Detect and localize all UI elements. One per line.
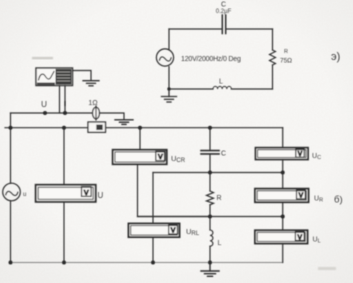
wire source bottom stub — [168, 67, 170, 89]
wire bottom rail — [11, 262, 283, 264]
AC source (big circuit) — [3, 183, 21, 201]
wire top-right segment of small circuit — [227, 28, 273, 30]
wire node D horizontal line — [138, 216, 283, 218]
junction series chain / top rail — [208, 126, 212, 130]
capacitor C (chain) — [201, 151, 219, 154]
wire scope channel A down — [59, 86, 61, 114]
svg-text:U: U — [41, 100, 47, 109]
svg-text:1Ω: 1Ω — [88, 100, 97, 107]
wire voltmeter U top lead — [63, 128, 65, 185]
svg-text:R: R — [284, 49, 288, 55]
voltmeter UR — [255, 189, 309, 203]
ground (small circuit) — [162, 89, 177, 102]
junction node B chain — [208, 171, 212, 175]
capacitor C (series, small circuit) — [222, 15, 225, 34]
voltmeter UL — [255, 230, 308, 243]
wire right column UR to UL — [282, 202, 284, 230]
wire source to bottom rail — [10, 201, 12, 263]
scan smudge artifact bottom right — [318, 267, 336, 270]
voltmeter U — [36, 185, 96, 202]
svg-text:б): б) — [334, 195, 343, 206]
fuse 1 ohm — [93, 106, 100, 120]
ground (upper line) — [115, 120, 133, 125]
junction node D right column — [281, 215, 285, 219]
wire right column UL to bottom rail — [282, 244, 284, 263]
wire node B horizontal line — [153, 172, 283, 174]
svg-text:C: C — [221, 2, 226, 9]
ground (bottom rail) — [201, 263, 219, 277]
svg-text:R: R — [217, 195, 222, 202]
svg-text:U: U — [98, 191, 104, 200]
svg-text:0.2µF: 0.2µF — [216, 9, 232, 15]
svg-text:L: L — [219, 79, 223, 86]
wire main top rail — [5, 127, 283, 129]
svg-text:V: V — [171, 226, 176, 235]
resistor R (chain) — [207, 191, 214, 205]
junction voltmeter U branch / top rail — [62, 126, 66, 130]
svg-text:u: u — [23, 192, 26, 198]
junction chain / bottom rail — [208, 261, 212, 265]
voltmeter UC — [256, 148, 309, 160]
wire voltmeter UCR top lead — [139, 128, 141, 150]
oscilloscope XSC1 icon — [36, 68, 73, 86]
wire top-left segment of small circuit — [169, 28, 221, 30]
wire oscilloscope to ground — [73, 71, 92, 81]
wire scope channel B down — [64, 86, 66, 114]
inductor L (chain) — [210, 230, 213, 246]
AC source V1 (small circuit) — [156, 49, 173, 66]
junction voltmeter U / bottom rail — [62, 261, 66, 265]
wire bottom-right segment of small circuit — [231, 88, 272, 90]
wire voltmeter U bottom lead — [63, 202, 65, 263]
wire upper measurement line — [11, 112, 93, 114]
junction node D chain — [208, 215, 212, 219]
svg-text:UR: UR — [314, 196, 323, 204]
node I on upper line — [63, 111, 67, 115]
wire chain C to R — [209, 154, 211, 191]
junction voltmeter UCR branch / top rail — [138, 126, 142, 130]
scan smudge artifact above oscilloscope — [32, 57, 53, 59]
voltmeter UCR — [113, 150, 167, 164]
wire chain top segment — [209, 128, 211, 150]
svg-text:75Ω: 75Ω — [280, 58, 292, 65]
wire right top stub (small circuit) — [272, 29, 274, 50]
svg-text:120V/2000Hz/0 Deg: 120V/2000Hz/0 Deg — [181, 56, 241, 63]
svg-text:V: V — [298, 151, 303, 158]
voltmeter URL — [129, 224, 180, 238]
resistor R 75ohm (small circuit) — [270, 50, 276, 65]
junction at source / top rail — [9, 126, 13, 130]
wire left vertical (source branch) — [10, 113, 12, 183]
ammeter (series in top rail) — [88, 122, 106, 132]
svg-text:L: L — [218, 240, 222, 247]
node junction at source bottom — [167, 87, 170, 90]
wire chain L to bottom rail — [209, 246, 211, 262]
wire voltmeter URL bottom lead — [152, 237, 154, 262]
junction node B right column — [281, 171, 285, 175]
svg-text:UC: UC — [312, 153, 321, 161]
svg-text:V: V — [158, 152, 163, 161]
svg-text:V: V — [297, 232, 302, 241]
wire right column top — [282, 128, 284, 148]
wire voltmeter URL top lead — [152, 173, 154, 224]
inductor L (series, small circuit) — [213, 86, 231, 89]
junction source / bottom rail — [9, 261, 13, 265]
wire voltmeter UCR bottom lead to node D — [138, 164, 211, 216]
svg-text:э): э) — [331, 51, 340, 63]
wire bottom-left segment of small circuit — [169, 88, 213, 90]
node U on upper line — [43, 111, 47, 115]
svg-text:C: C — [221, 151, 226, 158]
wire source top stub — [168, 29, 170, 50]
ground (oscilloscope) — [83, 81, 99, 86]
svg-text:V: V — [84, 188, 89, 197]
wire chain R to L — [209, 205, 211, 230]
wire upper line after fuse to ground corner — [100, 113, 125, 119]
junction voltmeter URL / bottom rail — [151, 261, 155, 265]
svg-text:I: I — [64, 99, 66, 108]
svg-text:UL: UL — [313, 237, 321, 245]
wire right column UC to UR — [282, 160, 284, 189]
wire right bottom stub (small circuit) — [272, 65, 274, 89]
svg-text:V: V — [299, 191, 304, 200]
